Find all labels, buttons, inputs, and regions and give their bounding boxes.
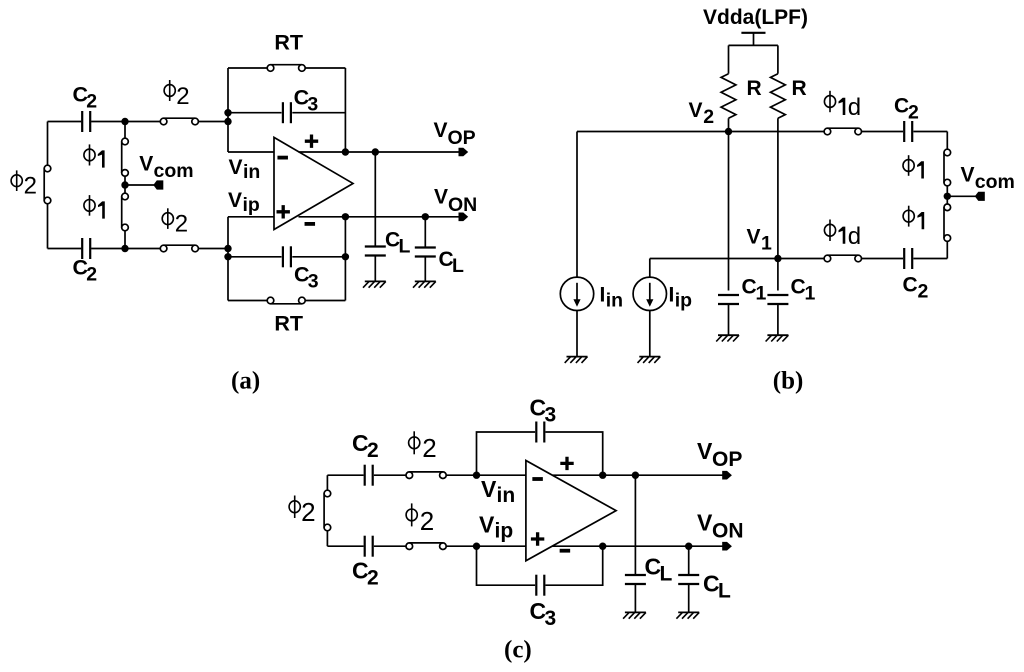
switch phi2 left (c) xyxy=(324,490,331,497)
wire Vin input (a) xyxy=(228,151,274,153)
label phi1 lower (a) xyxy=(84,195,105,218)
wire C1 right drop (b) xyxy=(777,259,779,291)
svg-text:V: V xyxy=(481,476,497,502)
wire C1 left drop (b) xyxy=(728,132,730,291)
wire Iin to ground (b) xyxy=(576,311,578,357)
op-amp plus output mark (c) xyxy=(560,457,573,470)
svg-text:L: L xyxy=(718,580,731,603)
label phi2 top (c) xyxy=(409,431,437,463)
svg-text:V: V xyxy=(434,186,448,209)
ground C1 right (b) xyxy=(767,334,788,336)
wire CL left drop (c) xyxy=(634,475,636,574)
node dot C3 bottom right (c) xyxy=(599,543,606,550)
node dot top-left (a) xyxy=(121,118,128,125)
label phi1d bottom (b) xyxy=(824,220,861,250)
arrowhead VOP (a) xyxy=(459,148,469,157)
op-amp plus output mark (a) xyxy=(305,135,318,148)
svg-text:2: 2 xyxy=(367,567,379,590)
wire C3 top (a) xyxy=(228,112,282,114)
svg-text:2: 2 xyxy=(918,281,929,303)
wire C3 bottom loop (c) xyxy=(477,546,536,585)
op-amp minus input mark (a) xyxy=(277,156,288,160)
svg-text:2: 2 xyxy=(420,506,434,536)
svg-text:R: R xyxy=(747,77,762,100)
wire right bus lower (b) xyxy=(946,241,948,258)
ground C1 left (b) xyxy=(718,334,739,336)
svg-text:Vdda(LPF): Vdda(LPF) xyxy=(703,6,808,29)
wire middle bus upper (a) xyxy=(124,122,126,142)
switch phi2 bottom (c) xyxy=(406,543,413,550)
resistor R right (b) xyxy=(771,74,786,119)
node dot V2 (b) xyxy=(725,128,732,135)
wire top input (a) xyxy=(48,121,82,123)
svg-text:3: 3 xyxy=(545,404,557,427)
wire C1 left to ground (b) xyxy=(728,305,730,335)
svg-text:1: 1 xyxy=(756,283,767,305)
wire switch to Vin (c) xyxy=(446,474,526,476)
svg-text:V: V xyxy=(434,119,448,142)
wire output VON (a) xyxy=(299,216,460,218)
wire C1 right to ground (b) xyxy=(777,305,779,335)
switch phi2 left (a) xyxy=(44,165,51,172)
label phi2 top (a) xyxy=(164,80,190,110)
wire Vip input (a) xyxy=(228,216,274,218)
switch phi1 upper (b) xyxy=(944,149,951,156)
wire C3 top loop (c) xyxy=(477,432,536,475)
switch RT top (a) xyxy=(267,65,274,72)
wire Vcom stub (b) xyxy=(947,195,976,197)
node dot Vin (c) xyxy=(473,472,480,479)
switch phi1 upper (a) xyxy=(122,138,129,145)
terminal Vcom tack (a) xyxy=(153,180,163,189)
wire Vcom stub (a) xyxy=(125,184,155,186)
ground CL right (a) xyxy=(415,280,436,282)
svg-text:ip: ip xyxy=(495,520,514,543)
node dot VON-CL (a) xyxy=(422,213,429,220)
op-amp plus input mark (a) xyxy=(277,205,290,218)
svg-text:R: R xyxy=(792,77,807,100)
node dot VOP-feedback (a) xyxy=(342,148,349,155)
capacitor C2 bottom (a) xyxy=(81,238,83,259)
wire output VOP (c) xyxy=(553,474,723,476)
current source Iin (b) xyxy=(560,277,593,310)
svg-text:ON: ON xyxy=(448,194,477,216)
wire Vdda rail (b) xyxy=(729,44,778,46)
svg-text:V: V xyxy=(689,99,703,122)
wire left R leg (b) xyxy=(728,45,730,73)
wire right R leg (b) xyxy=(777,45,779,73)
svg-text:3: 3 xyxy=(308,271,319,293)
ground CL right (c) xyxy=(678,611,699,613)
svg-text:OP: OP xyxy=(448,127,476,149)
node dot VOP-CL (a) xyxy=(372,148,379,155)
wire right feedback bus bottom (a) xyxy=(344,217,346,301)
wire right bus middle (b) xyxy=(946,186,948,207)
wire bottom input (c) xyxy=(327,545,363,547)
node dots at Vip bus (a) xyxy=(224,245,231,252)
ground CL left (c) xyxy=(625,611,646,613)
capacitor C3 bottom (a) xyxy=(282,246,284,267)
current source Iip (b) xyxy=(633,277,666,310)
capacitor CL right (a) xyxy=(415,246,436,248)
node dots at Vin bus (a) xyxy=(224,109,231,116)
svg-text:2: 2 xyxy=(908,102,919,124)
switch phi2 top (c) xyxy=(406,472,413,479)
svg-text:(b): (b) xyxy=(773,368,804,395)
wire bottom input (a) xyxy=(48,248,82,250)
node dot Vip (c) xyxy=(473,543,480,550)
wire CL right to ground (c) xyxy=(688,585,690,612)
capacitor C3 bottom (c) xyxy=(535,575,537,596)
svg-text:L: L xyxy=(660,563,673,586)
svg-text:C: C xyxy=(903,274,918,297)
node dot VOP-CL (c) xyxy=(632,472,639,479)
wire left vertical (a) xyxy=(47,122,49,169)
switch phi2 bottom (a) xyxy=(160,245,167,252)
resistor R left (b) xyxy=(721,74,736,119)
svg-text:2: 2 xyxy=(301,497,315,527)
wire right bus upper (b) xyxy=(946,132,948,153)
svg-text:V: V xyxy=(961,163,975,186)
svg-text:2: 2 xyxy=(86,91,97,113)
svg-text:1: 1 xyxy=(805,283,816,305)
wire CL right to ground (a) xyxy=(424,258,426,282)
op-amp U1 (a) xyxy=(274,137,353,229)
wire RT loop bottom (a) xyxy=(228,300,271,302)
svg-text:d: d xyxy=(848,223,861,250)
svg-text:V: V xyxy=(747,226,761,249)
op-amp plus input mark (c) xyxy=(531,532,544,545)
switch phi1d bottom (b) xyxy=(824,255,831,262)
switch phi2 top (a) xyxy=(160,118,167,125)
svg-text:ON: ON xyxy=(712,520,744,543)
switch phi1d top (b) xyxy=(824,128,831,135)
arrowhead VOP (c) xyxy=(722,471,732,480)
ground Iip (b) xyxy=(639,356,660,358)
svg-text:com: com xyxy=(975,171,1015,193)
capacitor C2 top (b) xyxy=(903,121,905,142)
arrowhead VON (c) xyxy=(722,542,732,551)
wire CL right drop (c) xyxy=(688,546,690,574)
wire middle bus lower (a) xyxy=(124,231,126,249)
wire CL right drop (a) xyxy=(424,217,426,247)
wire middle bus center (a) xyxy=(124,176,126,196)
svg-text:V: V xyxy=(697,438,713,464)
svg-text:C: C xyxy=(742,276,757,299)
wire Iip to ground (b) xyxy=(649,311,651,357)
op-amp minus output mark (c) xyxy=(560,549,571,553)
label phi1d top (b) xyxy=(824,91,861,121)
capacitor C2 top (a) xyxy=(81,111,83,132)
svg-text:2: 2 xyxy=(86,264,97,286)
wire top input (c) xyxy=(327,474,363,476)
wire V2 row (b) xyxy=(577,131,827,133)
wire output VOP (a) xyxy=(299,151,460,153)
svg-text:1: 1 xyxy=(761,233,772,255)
node Vcom dot (b) xyxy=(944,193,951,200)
capacitor C1 left (b) xyxy=(718,294,739,296)
node dot VON-CL (c) xyxy=(685,543,692,550)
svg-text:L: L xyxy=(452,255,464,277)
label phi2 left (c) xyxy=(289,496,315,527)
svg-text:V: V xyxy=(229,156,243,179)
wire Iip drop (b) xyxy=(649,259,651,278)
svg-text:RT: RT xyxy=(274,30,303,54)
capacitor C2 bottom (c) xyxy=(364,536,366,557)
capacitor C2 top (c) xyxy=(364,465,366,486)
svg-text:V: V xyxy=(228,189,242,212)
wire switch to node (a) xyxy=(198,121,228,123)
wire CL left drop (a) xyxy=(374,152,376,246)
wire Iin drop (b) xyxy=(576,132,578,278)
capacitor C3 top (a) xyxy=(282,102,284,123)
switch phi1 lower (a) xyxy=(122,193,129,200)
svg-text:2: 2 xyxy=(703,106,714,128)
wire RT loop top (a) xyxy=(228,67,271,69)
svg-text:V: V xyxy=(479,512,495,538)
svg-text:in: in xyxy=(243,161,260,183)
wire output VON (c) xyxy=(553,545,723,547)
wire C3 bottom (a) xyxy=(228,256,282,258)
label phi1 upper (b) xyxy=(903,155,924,178)
capacitor C3 top (c) xyxy=(535,422,537,443)
wire right feedback bus top (a) xyxy=(344,68,346,152)
svg-text:RT: RT xyxy=(274,312,303,336)
svg-text:3: 3 xyxy=(545,607,557,630)
svg-text:2: 2 xyxy=(422,433,436,463)
terminal Vcom tack (b) xyxy=(975,192,985,201)
node dot V1 (b) xyxy=(774,255,781,262)
svg-text:2: 2 xyxy=(175,210,188,237)
wire left vertical (c) xyxy=(326,475,328,493)
svg-text:ip: ip xyxy=(675,290,692,312)
svg-text:in: in xyxy=(606,290,623,312)
svg-text:C: C xyxy=(791,276,806,299)
svg-text:2: 2 xyxy=(24,173,37,200)
wire left feedback bus top (a) xyxy=(227,68,229,152)
switch phi1 lower (b) xyxy=(944,204,951,211)
op-amp U2 (c) xyxy=(526,461,616,561)
wire CL left to ground (a) xyxy=(374,257,376,282)
svg-text:2: 2 xyxy=(176,83,189,110)
switch RT bottom (a) xyxy=(267,297,274,304)
svg-text:OP: OP xyxy=(712,448,742,471)
wire V1 row (b) xyxy=(650,258,828,260)
svg-text:com: com xyxy=(154,160,194,182)
svg-text:V: V xyxy=(139,152,153,175)
op-amp minus input mark (c) xyxy=(532,477,543,481)
label phi1 lower (b) xyxy=(903,206,924,230)
ground Iin (b) xyxy=(567,356,588,358)
svg-text:(a): (a) xyxy=(231,368,260,395)
label phi2 left (a) xyxy=(11,170,37,199)
capacitor CL left (c) xyxy=(625,574,646,576)
op-amp minus output mark (a) xyxy=(305,222,316,226)
svg-text:ip: ip xyxy=(243,194,260,216)
svg-text:V: V xyxy=(697,510,713,536)
svg-text:I: I xyxy=(600,284,606,307)
node Vcom dot (a) xyxy=(121,181,128,188)
svg-text:2: 2 xyxy=(367,439,379,462)
capacitor CL right (c) xyxy=(678,574,699,576)
ground CL left (a) xyxy=(365,280,386,282)
wire left feedback bus bottom (a) xyxy=(227,217,229,301)
node dot bottom-left (a) xyxy=(121,245,128,252)
node dot VON-feedback (a) xyxy=(342,213,349,220)
arrowhead VON (a) xyxy=(459,213,469,222)
svg-text:I: I xyxy=(669,284,675,307)
label phi1 upper (a) xyxy=(84,144,105,167)
capacitor C2 bottom (b) xyxy=(903,248,905,269)
svg-text:3: 3 xyxy=(307,93,318,115)
wire switch to node bottom (a) xyxy=(198,248,228,250)
label phi2 middle (c) xyxy=(406,503,434,535)
svg-text:(c): (c) xyxy=(504,637,532,664)
svg-text:in: in xyxy=(497,484,516,507)
capacitor C1 right (b) xyxy=(767,294,788,296)
svg-text:d: d xyxy=(848,94,861,121)
wire switch to Vip (c) xyxy=(446,545,526,547)
label phi2 bottom (a) xyxy=(162,208,188,237)
node dot C3 top right (c) xyxy=(599,472,606,479)
capacitor CL left (a) xyxy=(365,245,386,247)
svg-text:C: C xyxy=(894,95,909,118)
node dot C3 bottom right (a) xyxy=(342,253,349,260)
power Vdda T-bar (b) xyxy=(741,32,765,34)
svg-text:L: L xyxy=(399,236,411,258)
wire CL left to ground (c) xyxy=(634,585,636,612)
